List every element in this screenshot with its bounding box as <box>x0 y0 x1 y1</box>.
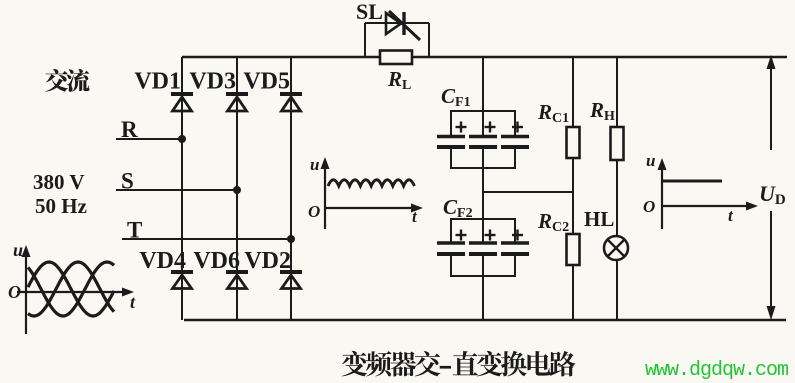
svg-text:T: T <box>127 218 142 243</box>
svg-text:HL: HL <box>584 207 614 231</box>
svg-text:u: u <box>646 151 655 170</box>
svg-text:VD2: VD2 <box>244 248 291 274</box>
svg-text:u: u <box>13 240 23 260</box>
svg-text:VD3: VD3 <box>189 69 236 95</box>
svg-text:S: S <box>121 169 134 194</box>
svg-text:50 Hz: 50 Hz <box>35 194 87 218</box>
svg-text:O: O <box>8 282 21 302</box>
svg-text:380 V: 380 V <box>33 170 85 194</box>
svg-text:SL: SL <box>356 0 383 24</box>
svg-text:VD5: VD5 <box>243 69 290 95</box>
svg-text:www.dgdqw.com: www.dgdqw.com <box>645 359 788 382</box>
svg-text:u: u <box>310 155 319 174</box>
svg-text:VD4: VD4 <box>139 248 186 274</box>
svg-text:O: O <box>308 202 320 221</box>
svg-text:VD1: VD1 <box>134 69 181 95</box>
svg-text:O: O <box>643 197 655 216</box>
svg-text:R: R <box>121 117 138 142</box>
svg-text:VD6: VD6 <box>193 248 240 274</box>
